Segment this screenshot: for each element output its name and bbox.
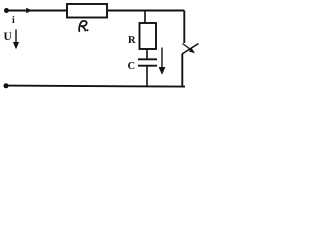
current arrow capacitor branch (161, 48, 163, 70)
resistor R2 (vertical box) (140, 23, 157, 49)
label R (128, 36, 135, 43)
node top-left terminal (4, 8, 9, 13)
label U (4, 32, 12, 40)
wire R2 to capacitor (146, 49, 148, 59)
switch blade (182, 44, 199, 55)
wire top-right segment (107, 10, 184, 12)
label script R (value of R1) (79, 21, 87, 31)
label i (12, 16, 14, 23)
wire capacitor to bottom (146, 66, 148, 86)
node bottom-left terminal (4, 83, 9, 88)
switch closing arrow (183, 44, 191, 50)
wire top-left segment (7, 10, 68, 12)
resistor R1 (horizontal box) (67, 4, 107, 18)
wire right branch bottom lead (181, 54, 183, 86)
capacitor C3 plates (138, 58, 157, 60)
wire right branch top lead (183, 11, 185, 44)
current arrow i (26, 8, 32, 13)
node junction RC branch (144, 11, 146, 24)
label C (128, 62, 134, 69)
wire bottom (6, 86, 185, 87)
voltage arrow U (15, 30, 17, 44)
